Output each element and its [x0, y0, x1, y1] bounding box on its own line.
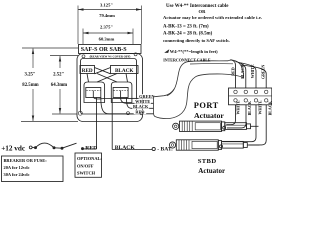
svg-text:RED: RED [85, 145, 97, 151]
wire WHITE to STBD actuator [223, 105, 257, 142]
cable connector fold line [167, 89, 174, 96]
svg-text:64.3mm: 64.3mm [51, 83, 67, 88]
svg-text:BLACK: BLACK [240, 64, 245, 79]
wire GREEN cable to strip [241, 65, 266, 88]
svg-text:WHITE: WHITE [236, 100, 241, 114]
wire BLACK cable to strip [236, 62, 246, 89]
wire BLACK to STBD actuator [249, 105, 266, 145]
wire RED (output) [101, 98, 158, 114]
svg-text:OR: OR [199, 9, 207, 14]
svg-text:BLACK: BLACK [115, 68, 133, 74]
svg-text:BLACK: BLACK [133, 104, 149, 109]
label GREEN [139, 94, 156, 99]
label RED (supply) [80, 66, 95, 75]
label STBD Actuator [198, 158, 225, 175]
svg-text:Actuator may be ordered with e: Actuator may be ordered with extended ca… [163, 15, 262, 20]
svg-text:SAF-S OR SAB-S: SAF-S OR SAB-S [81, 47, 128, 53]
label RED (output wire) [134, 110, 147, 115]
svg-text:2.375": 2.375" [100, 25, 113, 30]
wire RED to left rocker [87, 74, 89, 83]
dimension 3.125in width [78, 3, 142, 44]
wire RED drop to +12V [96, 98, 98, 149]
svg-text:PORT: PORT [194, 101, 219, 110]
svg-text:BLACK: BLACK [115, 145, 136, 151]
svg-text:BLACK: BLACK [247, 100, 252, 115]
wire BLACK crossover to RED side [95, 68, 111, 74]
svg-text:GREEN: GREEN [260, 65, 265, 79]
svg-text:BLACK: BLACK [267, 100, 272, 115]
terminal strip TB1 [229, 88, 272, 105]
screw bottom-middle [127, 112, 130, 115]
wire BLACK drop to battery [112, 99, 152, 150]
svg-text:RED: RED [230, 67, 235, 76]
svg-text:W4-**(**=length in feet): W4-**(**=length in feet) [170, 49, 218, 54]
wire BLACK to left rocker [97, 74, 117, 83]
switch cover outline [77, 54, 143, 122]
wire WHITE cable to strip [239, 63, 257, 89]
svg-text:30A for 24vdc: 30A for 24vdc [4, 172, 30, 177]
wire BLACK to PORT actuator [227, 105, 246, 128]
cable jacket inner line [190, 63, 233, 65]
svg-text:OPTIONAL:: OPTIONAL: [77, 156, 102, 161]
note text cable options [163, 4, 262, 43]
wire RED cable to strip [231, 60, 236, 89]
screw bottom-left [78, 111, 82, 115]
dimension 2.375in width [83, 25, 133, 44]
svg-text:WHITE: WHITE [250, 64, 255, 78]
wire BLACK (output) [127, 98, 159, 109]
svg-text:SWITCH: SWITCH [77, 171, 96, 176]
screw bottom-right [140, 112, 143, 115]
wire WHITE [121, 98, 158, 104]
switch inner plate [81, 59, 137, 115]
svg-text:2.52": 2.52" [53, 73, 64, 78]
label BLACK (supply) [111, 66, 139, 75]
svg-text:WHITE: WHITE [257, 100, 262, 114]
rocker switch S2 [111, 82, 132, 103]
label W4 interconnect cable [163, 49, 218, 63]
wire GREEN [93, 98, 158, 100]
switch SAF-S title box [79, 45, 142, 54]
label WHITE [135, 99, 152, 104]
svg-text:3.25": 3.25" [24, 73, 35, 78]
actuator PORT [173, 121, 259, 131]
note box optional switch [75, 153, 102, 177]
svg-text:STBD: STBD [198, 158, 217, 165]
label BLACK (output wire) [132, 104, 149, 109]
rocker switch S1 [84, 82, 105, 103]
battery positive terminal +12vdc [1, 144, 34, 152]
dimension 2.52in height [50, 56, 78, 115]
wire RED crossover to BLACK side [95, 68, 111, 74]
actuator STBD [169, 140, 259, 150]
svg-text:Actuator: Actuator [194, 111, 224, 120]
svg-text:82.5mm: 82.5mm [22, 83, 38, 88]
svg-text:3.125": 3.125" [100, 3, 113, 8]
svg-text:connecting directly to SAF swi: connecting directly to SAF switch. [163, 38, 230, 43]
wire WHITE to PORT actuator [226, 105, 235, 125]
svg-text:+12 vdc: +12 vdc [1, 144, 26, 152]
note box breaker/fuse [2, 156, 64, 182]
svg-text:BREAKER OR FUSE:: BREAKER OR FUSE: [4, 158, 48, 163]
switch blade (optional on/off) [54, 143, 97, 150]
svg-text:79.4mm: 79.4mm [99, 13, 115, 18]
svg-text:20A for 12vdc: 20A for 12vdc [4, 165, 30, 170]
svg-text:INTERCONNECT CABLE: INTERCONNECT CABLE [163, 57, 211, 62]
label PORT Actuator [194, 101, 225, 120]
wire BLACK to right rocker [126, 74, 128, 83]
dimension 3.25in height [21, 48, 78, 122]
svg-text:A-BK-24 = 28 ft. (8.5m): A-BK-24 = 28 ft. (8.5m) [163, 32, 213, 37]
screw top-right [134, 53, 137, 56]
wire RED to right rocker [97, 74, 117, 83]
svg-text:A-BK-13 = 23 ft. (7m): A-BK-13 = 23 ft. (7m) [163, 25, 209, 30]
svg-text:(REAR VIEW W/ COVER OFF): (REAR VIEW W/ COVER OFF) [90, 54, 131, 58]
svg-text:RED: RED [82, 68, 93, 74]
battery negative terminal [152, 146, 173, 152]
svg-text:60.3mm: 60.3mm [99, 37, 115, 42]
screw top-left [82, 55, 85, 58]
interconnect cable W4 [154, 60, 244, 119]
svg-text:ON/OFF: ON/OFF [77, 163, 94, 168]
breaker symbol [34, 143, 56, 149]
svg-text:Actuator: Actuator [198, 167, 225, 175]
